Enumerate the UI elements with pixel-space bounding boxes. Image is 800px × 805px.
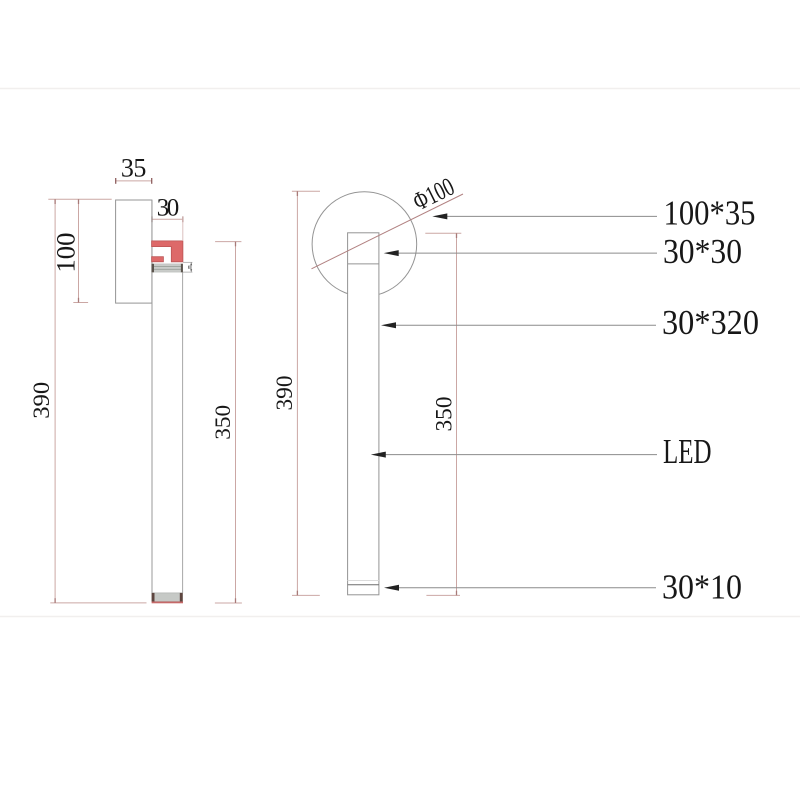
node tick 35 left [115,178,117,184]
svg-text:350: 350 [432,397,457,432]
faint page separator top [0,88,800,90]
cap line front [348,584,379,586]
tube right edge (side view) [182,272,184,593]
cap bottom dark end right [180,593,183,602]
dimension 390 front line [296,191,298,595]
node tick 100 top [78,199,80,204]
leader 30*320 [395,324,656,326]
node tick 390f top [296,191,298,196]
node tick 350f bottom [456,591,458,596]
tiny dim line [190,262,192,272]
arrow LED [371,452,386,458]
dimension 30 line [152,218,183,220]
svg-text:390: 390 [29,382,54,419]
node tick 30 right [182,216,184,222]
svg-text:100*35: 100*35 [664,194,756,233]
bracket red left block [152,257,164,262]
dimension 350 front bottom tick [426,594,460,596]
leader LED [385,454,657,456]
cap bottom gray (side view) [152,593,183,602]
tiny dim extension top [183,261,192,263]
cap top line 2 [153,268,182,270]
bracket red top (side view) [152,241,183,262]
node tick 390 top [54,199,56,204]
tiny arrow up [190,263,192,266]
svg-text:100: 100 [51,233,80,273]
dimension 350 side bottom tick [215,602,242,604]
tiny text 10 [188,266,190,269]
dimension 390 front top tick [292,190,320,192]
arrow 30*320 [381,322,396,328]
mount circle (front view) [312,192,417,297]
tiny dim extension bottom [183,271,192,273]
dimension 35 line [116,180,152,182]
wire top extension line [48,198,111,200]
arrow 100*35 [432,213,447,219]
dimension 350 front top tick [425,232,461,234]
node tick 350f top [456,233,458,238]
cap top dark end left [152,264,155,273]
svg-text:350: 350 [210,405,235,440]
dimension 350 front line [456,233,458,595]
cap top gray (side view) [152,264,183,272]
cap bottom red strip [152,602,183,604]
wall plate (side view) [116,200,152,303]
leader 100*35 [446,215,657,217]
leader 30*30 [398,252,658,254]
dimension 390 front bottom tick [292,594,320,596]
node tick 350s top [235,242,237,247]
arrow 30*30 [384,250,399,256]
svg-text:LED: LED [663,432,712,471]
dimension 100 line [78,199,80,302]
svg-text:35: 35 [121,153,147,182]
node tick 30 left [151,216,153,222]
node tick 350s bottom [235,598,237,603]
cap faint line front [348,580,379,582]
svg-text:30: 30 [157,195,180,222]
cap top dark end right [181,264,183,273]
svg-text:30*30: 30*30 [663,232,742,271]
wire 30 right extension [182,217,184,241]
dimension 350 side view line [235,242,237,603]
cap bottom dark end left [152,593,155,602]
dimension 390 bottom extension [50,602,146,604]
leader 30*10 [398,587,656,589]
node tick 35 right [151,178,153,184]
node tick 390f bottom [296,591,298,596]
dimension 100 bottom tick [73,302,88,304]
tube left edge (side view) [151,200,153,593]
nipple bottom line [348,263,379,265]
svg-text:30*320: 30*320 [662,303,759,342]
node tick 100 bottom [78,298,80,303]
cap top line 1 [153,265,182,267]
dimension 390 side view line [54,199,56,603]
dimension 350 side top tick [215,241,241,243]
tiny arrow down [190,269,192,272]
arrow 30*10 [384,585,399,591]
node tick 390 bottom [54,598,56,603]
svg-text:30*10: 30*10 [662,568,742,607]
faint page separator bottom [0,616,800,618]
svg-text:390: 390 [272,376,297,411]
diameter leader diagonal [312,194,464,269]
tube body (front view) [348,233,379,595]
